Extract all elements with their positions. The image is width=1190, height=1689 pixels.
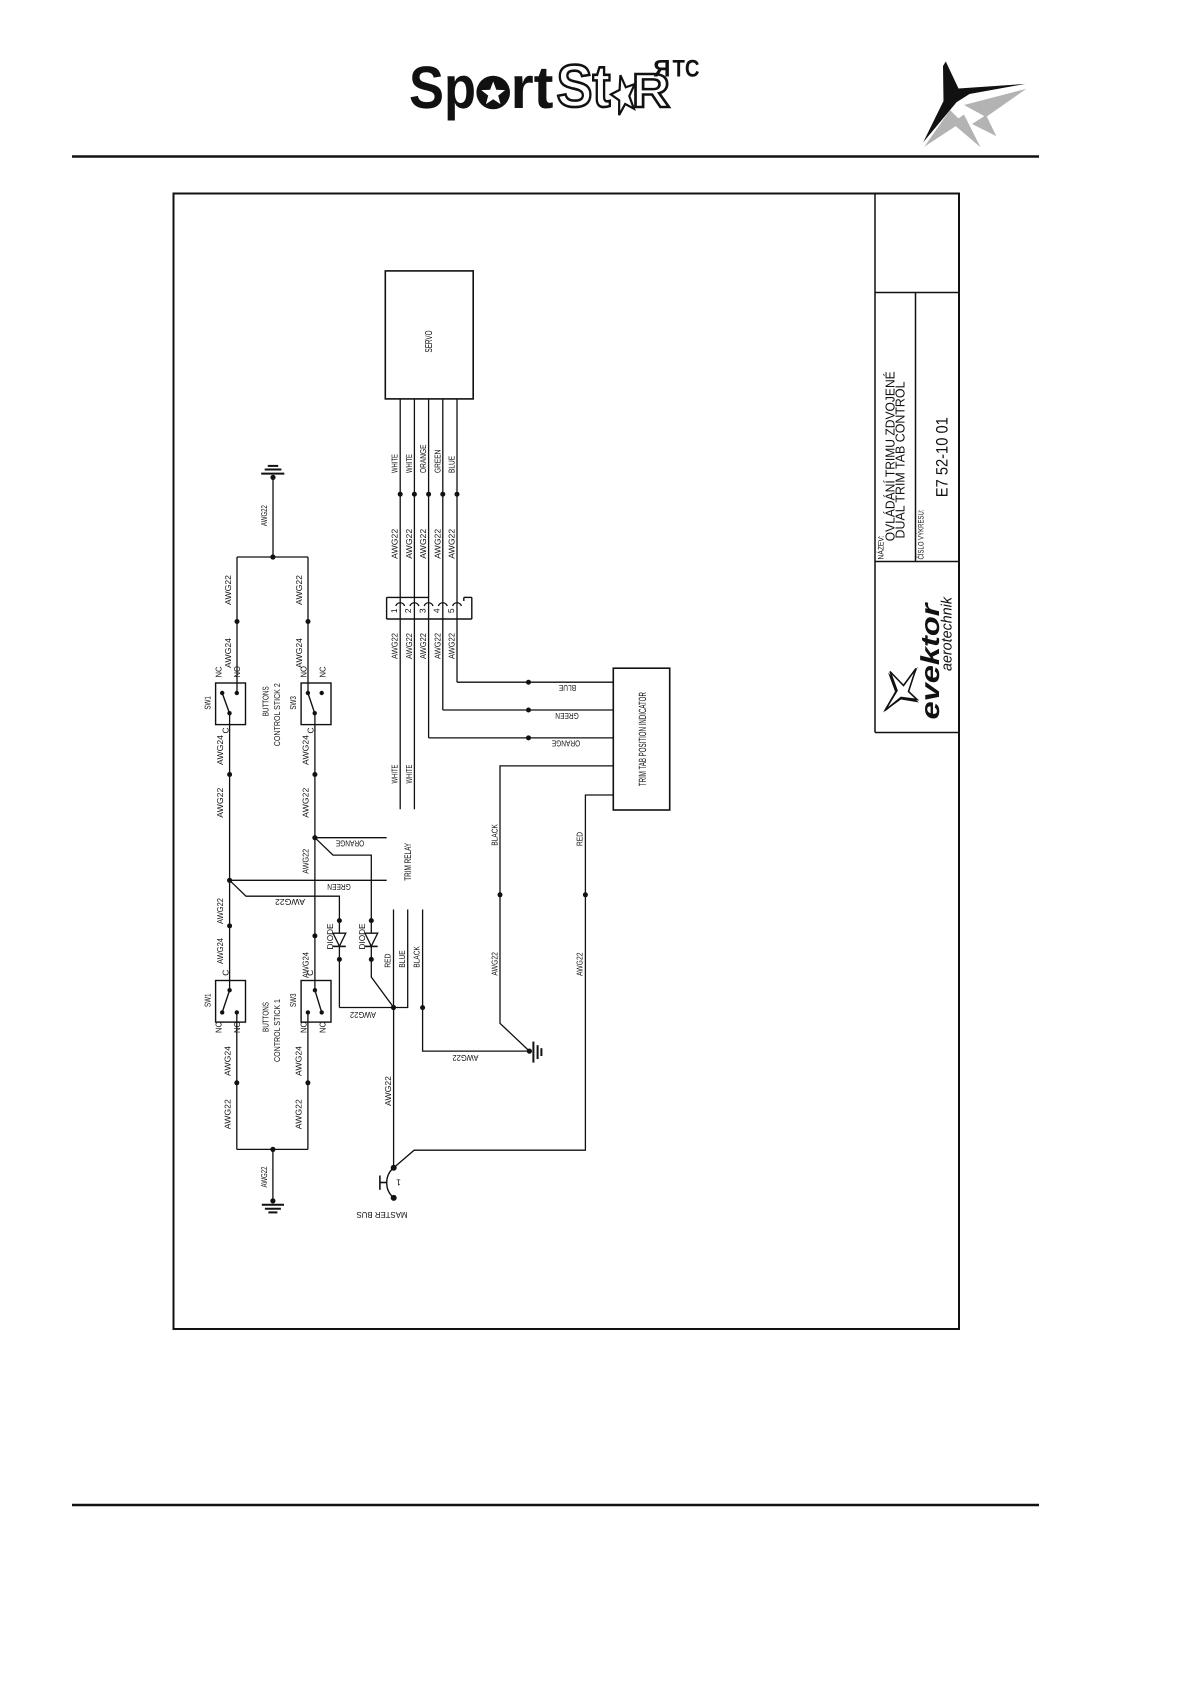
svg-text:BLUE: BLUE: [559, 683, 576, 693]
svg-text:C: C: [305, 970, 315, 976]
svg-text:CONTROL STICK 1: CONTROL STICK 1: [272, 999, 282, 1062]
svg-text:AWG22: AWG22: [275, 897, 305, 907]
svg-text:AWG22: AWG22: [350, 1010, 376, 1020]
svg-text:ČÍSLO VÝKRESU:: ČÍSLO VÝKRESU:: [916, 510, 925, 560]
svg-text:AWG22: AWG22: [215, 787, 225, 817]
svg-text:BUTTONS: BUTTONS: [260, 1002, 270, 1032]
svg-text:AWG22: AWG22: [390, 633, 400, 659]
svg-text:AWG22: AWG22: [259, 1166, 269, 1187]
svg-text:WHITE: WHITE: [390, 764, 400, 783]
svg-text:RED: RED: [575, 832, 585, 846]
svg-text:SERVO: SERVO: [424, 330, 435, 352]
svg-text:AWG22: AWG22: [215, 898, 225, 924]
svg-text:WHITE: WHITE: [404, 454, 414, 473]
svg-text:DIODE: DIODE: [325, 923, 335, 949]
svg-text:NO: NO: [232, 666, 242, 678]
svg-text:NO: NO: [298, 1021, 308, 1033]
svg-text:SW3: SW3: [288, 993, 298, 1007]
svg-text:AWG24: AWG24: [223, 638, 233, 668]
svg-text:aerotechnik: aerotechnik: [939, 596, 956, 671]
svg-text:ORANGE: ORANGE: [335, 839, 364, 849]
svg-text:1: 1: [389, 608, 399, 613]
svg-text:TC: TC: [673, 56, 700, 83]
svg-text:AWG24: AWG24: [215, 938, 225, 964]
svg-text:4: 4: [432, 608, 442, 613]
svg-text:AWG22: AWG22: [259, 505, 269, 526]
svg-text:GREEN: GREEN: [555, 711, 578, 721]
svg-text:AWG22: AWG22: [294, 1099, 304, 1129]
svg-text:BUTTONS: BUTTONS: [260, 686, 270, 716]
svg-text:AWG24: AWG24: [294, 1046, 304, 1076]
svg-text:AWG22: AWG22: [432, 529, 442, 559]
svg-text:AWG22: AWG22: [418, 633, 428, 659]
svg-text:BLACK: BLACK: [489, 824, 499, 846]
svg-text:AWG22: AWG22: [404, 633, 414, 659]
svg-text:AWG22: AWG22: [223, 1099, 233, 1129]
svg-text:TRIM TAB POSITION INDICATOR: TRIM TAB POSITION INDICATOR: [637, 692, 649, 786]
svg-text:C: C: [306, 727, 316, 733]
svg-text:AWG22: AWG22: [390, 529, 400, 559]
svg-text:DIODE: DIODE: [357, 923, 367, 949]
svg-text:AWG24: AWG24: [215, 735, 225, 765]
svg-text:BLUE: BLUE: [397, 950, 407, 967]
svg-text:C: C: [220, 970, 230, 976]
svg-text:AWG24: AWG24: [223, 1046, 233, 1076]
svg-text:AWG22: AWG22: [447, 633, 457, 659]
svg-text:AWG22: AWG22: [447, 529, 457, 559]
svg-text:TRIM RELAY: TRIM RELAY: [403, 842, 414, 880]
svg-text:1: 1: [396, 1178, 401, 1188]
svg-text:AWG22: AWG22: [489, 952, 499, 976]
svg-text:AWG24: AWG24: [294, 638, 304, 668]
svg-text:SW1: SW1: [203, 993, 213, 1007]
svg-text:Sp: Sp: [409, 54, 476, 121]
svg-text:2: 2: [403, 608, 413, 613]
svg-text:3: 3: [417, 608, 427, 613]
svg-text:RED: RED: [383, 954, 393, 968]
svg-text:WHITE: WHITE: [390, 454, 400, 473]
svg-text:GREEN: GREEN: [432, 450, 442, 473]
svg-text:AWG22: AWG22: [404, 529, 414, 559]
svg-text:AWG22: AWG22: [294, 575, 304, 605]
svg-text:MASTER BUS: MASTER BUS: [356, 1210, 407, 1220]
svg-text:E7 52-10 01: E7 52-10 01: [934, 417, 952, 497]
svg-text:NC: NC: [317, 667, 327, 678]
svg-text:AWG22: AWG22: [383, 1076, 393, 1106]
svg-text:BLACK: BLACK: [411, 946, 421, 968]
svg-text:DUAL TRIM TAB CONTROL: DUAL TRIM TAB CONTROL: [893, 382, 908, 539]
svg-text:St: St: [557, 53, 611, 120]
svg-text:C: C: [220, 727, 230, 733]
svg-text:ORANGE: ORANGE: [418, 444, 428, 473]
svg-text:NC: NC: [214, 667, 224, 678]
svg-text:BLUE: BLUE: [447, 456, 457, 473]
svg-text:AWG22: AWG22: [418, 529, 428, 559]
svg-text:NC: NC: [317, 1022, 327, 1033]
svg-text:R: R: [653, 56, 670, 83]
svg-text:GREEN: GREEN: [327, 882, 350, 892]
svg-text:NO: NO: [298, 666, 308, 678]
svg-text:CONTROL STICK 2: CONTROL STICK 2: [272, 683, 282, 746]
svg-text:SW3: SW3: [288, 696, 298, 710]
svg-text:ORANGE: ORANGE: [551, 739, 580, 749]
svg-text:NC: NC: [214, 1022, 224, 1033]
svg-text:AWG22: AWG22: [301, 849, 311, 874]
svg-text:rt: rt: [511, 54, 554, 121]
svg-text:5: 5: [446, 608, 456, 613]
svg-text:AWG22: AWG22: [432, 633, 442, 659]
svg-text:SW1: SW1: [203, 696, 213, 710]
svg-text:AWG24: AWG24: [301, 735, 311, 765]
svg-text:AWG22: AWG22: [301, 787, 311, 817]
svg-text:WHITE: WHITE: [404, 764, 414, 783]
svg-text:AWG22: AWG22: [452, 1053, 478, 1063]
svg-text:AWG22: AWG22: [223, 575, 233, 605]
svg-text:AWG22: AWG22: [575, 952, 585, 976]
